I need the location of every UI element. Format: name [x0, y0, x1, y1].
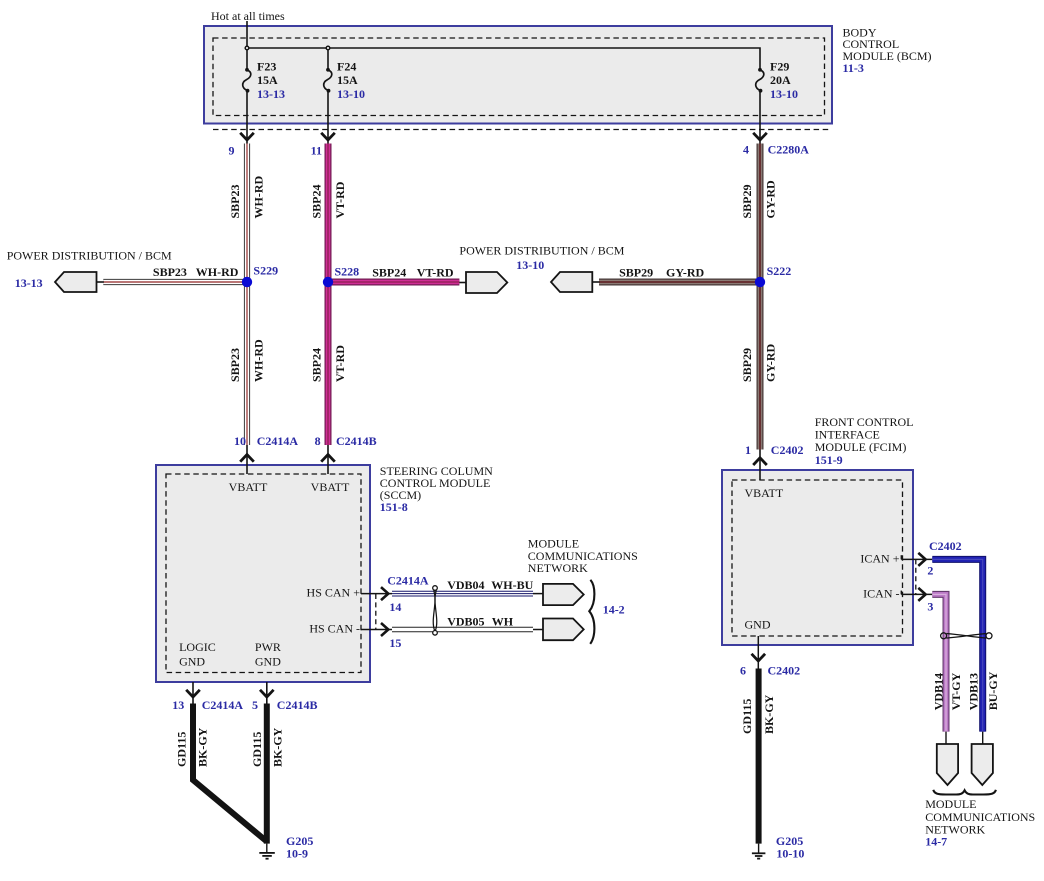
brace 14-2 [589, 580, 594, 644]
fuse F23 [243, 68, 251, 124]
svg-text:F23: F23 [257, 59, 276, 73]
module BCM box [204, 26, 832, 124]
svg-text:14: 14 [389, 600, 401, 614]
off-page connector VDB13 down [972, 732, 993, 785]
module BCM title [843, 25, 932, 75]
svg-text:Hot at all times: Hot at all times [211, 9, 285, 23]
junction at F23 [245, 46, 249, 50]
pin 10 arrow into SCCM [240, 445, 254, 474]
svg-text:C2414A: C2414A [387, 573, 429, 587]
svg-text:POWER DISTRIBUTION / BCM: POWER DISTRIBUTION / BCM [459, 244, 624, 258]
svg-text:SBP29: SBP29 [740, 348, 754, 382]
svg-text:C2280A: C2280A [768, 143, 810, 157]
pin 3 stub and arrow [901, 588, 932, 601]
svg-text:9: 9 [229, 143, 235, 157]
ground G205 label (FCIM) [776, 834, 805, 860]
junction at F24 [326, 46, 330, 50]
svg-text:SBP23: SBP23 [228, 184, 242, 218]
svg-text:151-8: 151-8 [380, 500, 408, 514]
svg-text:S222: S222 [767, 264, 792, 278]
fuse F23 value labels [257, 59, 285, 101]
svg-text:GY-RD: GY-RD [666, 266, 705, 280]
svg-text:13-10: 13-10 [516, 258, 544, 272]
connector C2402 dashed line [915, 559, 917, 594]
pin 1 arrow into FCIM [753, 450, 767, 481]
wire GD115 BK-GY left [193, 704, 267, 842]
pin 5 arrow out of SCCM [260, 682, 274, 704]
wire SBP29 GY-RD horizontal to S222 [599, 279, 760, 286]
svg-text:SBP24: SBP24 [310, 184, 324, 218]
fuse F29 value labels [770, 59, 798, 101]
node MODULE COMMUNICATIONS NETWORK title (bottom) [925, 797, 1035, 848]
svg-text:S229: S229 [253, 264, 278, 278]
module SCCM title [380, 464, 493, 514]
svg-text:14-7: 14-7 [925, 834, 947, 848]
wire SBP24 VT-RD horizontal from S228 [328, 279, 459, 286]
svg-text:10-10: 10-10 [776, 846, 804, 860]
svg-text:BU-GY: BU-GY [986, 671, 1000, 710]
ground G205 (SCCM) [259, 844, 275, 859]
svg-text:WH-RD: WH-RD [252, 176, 266, 219]
pin 14 stub and arrow [361, 587, 392, 600]
svg-text:WH-BU: WH-BU [491, 578, 533, 592]
svg-text:C2414B: C2414B [336, 434, 377, 448]
svg-text:VDB05: VDB05 [447, 615, 484, 629]
wire GD115 BK-GY right [264, 704, 270, 844]
BCM connector dashed line [213, 129, 829, 131]
svg-text:VBATT: VBATT [229, 480, 268, 494]
svg-text:SBP23: SBP23 [153, 265, 187, 279]
ground G205 label [286, 834, 313, 861]
pin 8 arrow into SCCM [321, 445, 335, 474]
svg-text:LOGIC: LOGIC [179, 640, 216, 654]
svg-text:C2402: C2402 [771, 443, 804, 457]
svg-text:POWER DISTRIBUTION / BCM: POWER DISTRIBUTION / BCM [7, 248, 172, 262]
svg-text:13-10: 13-10 [337, 87, 365, 101]
ground G205 (FCIM) [752, 844, 766, 859]
svg-text:15A: 15A [337, 73, 358, 87]
module FCIM box [722, 470, 913, 645]
svg-text:6: 6 [740, 663, 746, 677]
svg-text:S228: S228 [335, 265, 360, 279]
wire GD115 BK-GY (FCIM) [756, 669, 762, 844]
svg-text:C2414A: C2414A [257, 434, 299, 448]
svg-text:3: 3 [927, 600, 933, 614]
wire VDB14 VT-GY [932, 594, 946, 731]
twisted pair symbol [433, 586, 438, 635]
svg-text:15: 15 [389, 636, 401, 650]
fuse F29 [756, 68, 764, 124]
svg-text:2: 2 [927, 563, 933, 577]
splice S229 [242, 277, 252, 287]
off-page connector HS CAN + [533, 584, 584, 605]
svg-text:VDB04: VDB04 [447, 578, 484, 592]
svg-text:VT-GY: VT-GY [949, 672, 963, 710]
svg-text:ICAN +: ICAN + [860, 552, 899, 566]
svg-text:WH: WH [492, 615, 514, 629]
svg-text:SBP29: SBP29 [619, 266, 653, 280]
svg-text:VT-RD: VT-RD [333, 181, 347, 218]
SCCM pin name LOGIC GND [179, 640, 216, 669]
svg-text:13-10: 13-10 [770, 87, 798, 101]
pin 6 arrow out of FCIM [752, 636, 766, 669]
svg-text:GD115: GD115 [174, 732, 188, 767]
svg-text:WH-RD: WH-RD [252, 339, 266, 382]
svg-text:VBATT: VBATT [745, 486, 784, 500]
svg-text:C2402: C2402 [768, 663, 801, 677]
pin 13 arrow out of SCCM [186, 682, 200, 704]
svg-text:GD115: GD115 [250, 732, 264, 767]
svg-text:VT-RD: VT-RD [333, 345, 347, 382]
svg-text:VBATT: VBATT [311, 480, 350, 494]
svg-text:GND: GND [179, 655, 205, 669]
underbrace 14-7 [933, 790, 996, 795]
svg-text:10-9: 10-9 [286, 847, 308, 861]
twisted pair symbol (ICAN) [941, 633, 992, 639]
off-page connector right (to 13-10) [459, 272, 507, 293]
off-page connector HS CAN - [533, 619, 584, 641]
svg-text:SBP24: SBP24 [372, 266, 406, 280]
pin 11 arrow out of BCM [321, 124, 335, 144]
svg-text:8: 8 [315, 434, 321, 448]
pin 9 arrow out of BCM [240, 124, 254, 144]
wire: BCM internal bus [247, 48, 760, 70]
off-page connector left (SBP29 from 13-10) [551, 272, 600, 292]
wire SBP23 WH-RD vertical [244, 144, 250, 446]
svg-text:SBP24: SBP24 [310, 348, 324, 382]
svg-text:PWR: PWR [255, 640, 281, 654]
svg-text:20A: 20A [770, 73, 791, 87]
svg-text:WH-RD: WH-RD [196, 265, 239, 279]
svg-text:151-9: 151-9 [815, 453, 843, 467]
svg-text:GY-RD: GY-RD [764, 180, 778, 219]
svg-text:C2414A: C2414A [202, 698, 244, 712]
wire: hot feed into BCM [246, 21, 248, 70]
svg-text:BK-GY: BK-GY [196, 727, 210, 767]
svg-text:C2414B: C2414B [277, 698, 318, 712]
pin 15 stub and arrow [361, 623, 392, 636]
svg-text:GY-RD: GY-RD [764, 343, 778, 382]
wire SBP23 WH-RD horizontal to S229 [103, 279, 247, 285]
svg-text:13: 13 [172, 698, 184, 712]
svg-text:VDB13: VDB13 [967, 673, 981, 710]
svg-text:13-13: 13-13 [257, 87, 285, 101]
SCCM pin name PWR GND [255, 640, 281, 669]
wire SBP24 VT-RD vertical [325, 144, 332, 446]
svg-text:ICAN -: ICAN - [863, 587, 899, 601]
svg-text:NETWORK: NETWORK [528, 561, 588, 575]
module SCCM box [156, 465, 370, 682]
fuse F24 [324, 68, 332, 124]
svg-text:4: 4 [743, 143, 749, 157]
node MODULE COMMUNICATIONS NETWORK title [528, 537, 638, 576]
wire VDB05 WH [392, 627, 533, 633]
svg-text:15A: 15A [257, 73, 278, 87]
svg-text:11: 11 [311, 143, 322, 157]
svg-text:HS CAN +: HS CAN + [307, 586, 361, 600]
pin 2 stub and arrow [901, 553, 932, 566]
fuse F24 value labels [337, 59, 365, 101]
svg-text:GD115: GD115 [740, 699, 754, 734]
splice S228 [323, 277, 333, 287]
svg-text:SBP23: SBP23 [228, 348, 242, 382]
svg-text:MODULE (FCIM): MODULE (FCIM) [815, 440, 907, 454]
svg-text:F29: F29 [770, 59, 789, 73]
module FCIM title [815, 415, 914, 467]
svg-text:GND: GND [255, 655, 281, 669]
svg-text:10: 10 [234, 434, 246, 448]
svg-text:13-13: 13-13 [15, 276, 43, 290]
svg-text:BK-GY: BK-GY [271, 727, 285, 767]
off-page connector left (to 13-13) [55, 272, 104, 292]
svg-text:F24: F24 [337, 59, 356, 73]
svg-text:1: 1 [745, 443, 751, 457]
off-page connector VDB14 down [937, 732, 958, 785]
svg-text:VDB14: VDB14 [932, 673, 946, 710]
splice S222 [755, 277, 765, 287]
svg-text:HS CAN -: HS CAN - [309, 622, 360, 636]
connector C2414A dashed line [375, 594, 377, 630]
wire VDB13 BU-GY [932, 559, 982, 731]
svg-text:11-3: 11-3 [843, 61, 864, 75]
svg-text:BK-GY: BK-GY [762, 694, 776, 734]
svg-text:GND: GND [745, 618, 771, 632]
svg-text:SBP29: SBP29 [740, 184, 754, 218]
wire SBP29 GY-RD vertical [757, 144, 764, 450]
pin 4 arrow out of BCM [753, 124, 767, 144]
wire VDB04 WH-BU [392, 591, 533, 597]
svg-text:5: 5 [252, 698, 258, 712]
svg-text:C2402: C2402 [929, 539, 962, 553]
svg-text:14-2: 14-2 [603, 603, 625, 617]
svg-text:VT-RD: VT-RD [417, 266, 454, 280]
